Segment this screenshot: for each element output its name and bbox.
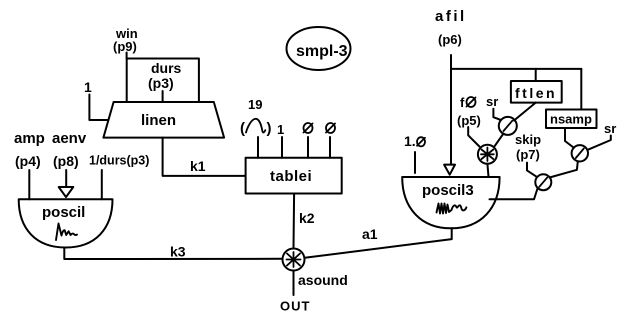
wire table arg 1: [257, 137, 259, 158]
wire div3 to poscil3: [490, 189, 538, 200]
svg-text:(: (: [240, 120, 245, 137]
opcode ftlen box: [511, 81, 562, 103]
wire asound output: [293, 271, 295, 296]
slashed zero 1: [304, 123, 313, 133]
wire win to durs box: [126, 53, 128, 59]
svg-text:durs: durs: [151, 60, 182, 76]
arrow into poscil: [59, 187, 74, 197]
svg-text:sr: sr: [604, 121, 616, 136]
slash in div1: [504, 121, 513, 131]
wire k3 poscil to multiplier: [64, 248, 282, 260]
wire mult2 to poscil3: [487, 164, 488, 177]
opcode poscil3 D-shape: [402, 177, 499, 228]
svg-text:(p5): (p5): [457, 113, 481, 128]
wire p8 to arrow: [65, 170, 67, 187]
svg-text:amp: amp: [14, 130, 45, 147]
wire afil top branch: [451, 68, 581, 70]
opcode tablei box: [246, 158, 342, 194]
wire 1/durs to poscil: [101, 170, 103, 199]
slash in div3: [539, 177, 547, 186]
svg-text:1/durs(p3): 1/durs(p3): [89, 154, 149, 168]
wire sr right to div2: [588, 136, 611, 150]
svg-text:smpl-3: smpl-3: [296, 43, 348, 60]
asterisk in multiplier: [287, 252, 301, 267]
wire p7 to div3: [527, 163, 537, 177]
svg-text:afil: afil: [435, 8, 467, 25]
svg-text:19: 19: [248, 97, 262, 112]
svg-text:(p8): (p8): [53, 153, 79, 169]
svg-text:ftlen: ftlen: [515, 85, 557, 101]
wire p4 to poscil: [28, 170, 30, 199]
wire sr to div1: [493, 109, 501, 120]
wire p3 to linen: [162, 91, 164, 102]
svg-text:1: 1: [84, 79, 92, 95]
divider circle div1: [499, 117, 517, 135]
wire table arg 2: [281, 137, 283, 158]
svg-text:aenv: aenv: [52, 130, 87, 147]
multiplier circle mult2: [478, 145, 497, 164]
slash in div2: [576, 149, 584, 159]
svg-text:1: 1: [277, 122, 284, 137]
svg-text:a1: a1: [362, 226, 378, 242]
svg-text:(p7): (p7): [516, 147, 540, 162]
wire nsamp to div2: [565, 128, 574, 148]
svg-text:poscil3: poscil3: [422, 182, 474, 199]
svg-text:skip: skip: [515, 132, 541, 147]
waveform squiggle in poscil3: [437, 204, 467, 214]
divider circle div3: [535, 174, 551, 190]
svg-text:f: f: [460, 95, 465, 110]
durs box: [127, 59, 199, 103]
wire afil main vertical: [450, 55, 452, 165]
svg-text:k2: k2: [299, 210, 315, 226]
svg-text:tablei: tablei: [270, 168, 312, 185]
wire branch to nsamp: [580, 69, 582, 109]
svg-text:(p9): (p9): [113, 39, 137, 54]
svg-text:nsamp: nsamp: [550, 112, 592, 127]
svg-text:k1: k1: [190, 158, 206, 174]
wire a1 poscil3 to multiplier: [305, 228, 452, 257]
wire p5 to mult2: [468, 127, 479, 147]
svg-text:k3: k3: [170, 244, 186, 260]
wire table arg 4: [329, 137, 331, 158]
svg-text:sr: sr: [486, 94, 498, 109]
wire 1 to linen: [89, 95, 108, 121]
wire 1.0 to poscil3: [414, 152, 416, 173]
svg-text:): ): [267, 120, 272, 137]
asterisk in mult2: [481, 148, 494, 162]
svg-text:1.: 1.: [404, 133, 416, 149]
svg-text:linen: linen: [141, 112, 176, 129]
waveform squiggle in poscil: [56, 224, 77, 241]
wire k2 tablei to multiplier: [293, 194, 296, 249]
wire branch to ftlen: [535, 69, 537, 81]
multiplier circle asound: [283, 249, 305, 271]
svg-text:asound: asound: [298, 272, 348, 288]
svg-text:(p6): (p6): [438, 32, 462, 47]
divider circle div2: [572, 145, 588, 161]
svg-text:poscil: poscil: [42, 204, 85, 221]
svg-text:OUT: OUT: [280, 299, 310, 314]
wire k1 linen to tablei: [163, 138, 246, 176]
title oval smpl-3: [287, 27, 351, 70]
svg-text:(p4): (p4): [15, 153, 41, 169]
arrow into poscil3: [444, 165, 455, 175]
opcode nsamp box: [546, 110, 597, 129]
svg-text:(p3): (p3): [148, 75, 174, 91]
slashed zero 2: [326, 123, 335, 133]
wire ftlen to div1: [514, 103, 536, 121]
opcode poscil D-shape: [19, 199, 113, 247]
wire div1 to mult2: [495, 134, 504, 147]
opcode linen trapezoid: [103, 102, 224, 138]
wire table arg 3: [307, 137, 309, 158]
wire div2 to div3: [550, 161, 578, 177]
